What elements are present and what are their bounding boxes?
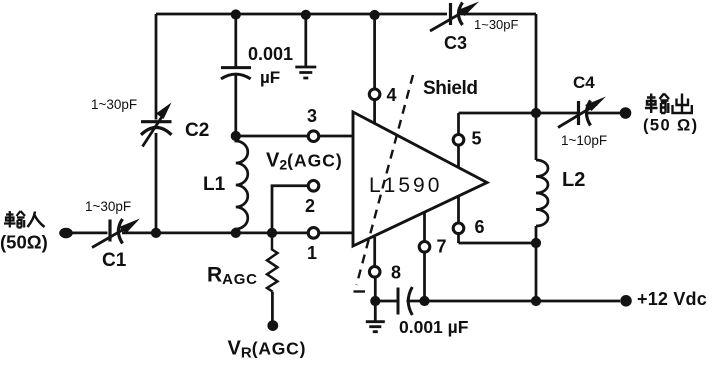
wire 0.001uF cap branch bottom [234,74,237,137]
svg-text:Shield: Shield [423,78,478,99]
inductor L2 coil [536,160,548,226]
pin 3 circle [308,131,319,142]
capacitor C0.001 bottom plates [397,288,400,315]
svg-text:4: 4 [387,85,397,105]
wire pin5 stub up [457,113,460,134]
shield dashed corner [354,290,366,292]
resistor RAGC zigzag [267,233,278,292]
svg-text:0.001 µF: 0.001 µF [399,317,469,337]
wire pin6 stub up [457,195,460,223]
pin 2 circle [308,181,319,192]
svg-text:3: 3 [307,106,317,126]
svg-text:V2(AGC): V2(AGC) [266,150,343,173]
junction dot top bus / ground [301,10,311,20]
svg-text:1: 1 [307,243,317,263]
wire pin6 stub down [457,234,460,243]
svg-text:L1590: L1590 [369,174,442,197]
wire pin4 stub to triangle [373,100,376,123]
trimmer capacitor C4 plates [577,101,580,125]
svg-text:(50 Ω): (50 Ω) [643,117,699,135]
capacitor C0.001 top plates [221,66,251,69]
trimmer C3 arrowhead [458,2,479,17]
svg-text:1~10pF: 1~10pF [561,133,607,148]
wire top bus left segment [156,13,447,16]
junction dot L2 bottom / pin6 wire [531,238,541,248]
CJK glyph shu (input) [4,211,25,228]
trimmer capacitor C1 arrow [92,225,131,248]
VR(AGC) terminal dot [267,320,278,331]
wire top bus right segment [461,13,536,16]
pin 1 circle [308,228,319,239]
output terminal dot [620,107,632,119]
trimmer capacitor C2 arrow [143,112,166,147]
ground top symbol [295,67,316,78]
wire top ground stem [304,14,307,66]
CJK glyph shu (output) [645,94,669,114]
wire pin7 stub up [423,212,426,241]
junction dot input rail / RAGC [267,228,277,238]
trimmer capacitor C1 plates [108,220,111,242]
svg-text:0.001: 0.001 [248,44,293,64]
op-amp U1 L1590 triangle [353,112,487,246]
wire pin8 down lead [374,278,377,301]
svg-text:C4: C4 [573,73,595,92]
trimmer capacitor C3 plates [449,3,452,25]
pin 5 circle [453,135,464,146]
pin 6 circle [453,223,464,234]
svg-text:2: 2 [305,196,315,216]
wire main input rail [66,232,353,235]
junction dot input rail / C2 [151,228,161,238]
svg-text:L1: L1 [203,174,226,195]
wire L2 bottom lead to +12V rail [535,226,538,301]
svg-text:+12 Vdc: +12 Vdc [637,289,707,309]
svg-text:7: 7 [437,237,447,257]
svg-text:6: 6 [475,217,485,237]
svg-text:VR(AGC): VR(AGC) [228,338,307,362]
trimmer C2 arrowhead [156,103,172,120]
shield dashed line [357,75,414,285]
wire output rail [459,112,621,115]
ground bottom symbol [366,301,385,332]
wire pin3 rail [236,135,353,138]
inductor L1 coil [236,136,248,233]
wire pin6 horizontal to L2 [459,242,537,245]
trimmer capacitor C3 arrow [430,8,470,31]
wire pin7 down lead [423,253,426,302]
svg-text:µF: µF [260,68,280,87]
input terminal dot [59,228,73,239]
wire pin4 riser [373,14,376,89]
wire right vertical from top bus to output node [535,14,538,113]
trimmer C4 arrowhead [585,97,606,112]
junction dot L2 / bottom rail [531,296,541,306]
svg-text:(50Ω): (50Ω) [0,232,48,253]
svg-text:1~30pF: 1~30pF [85,199,131,214]
junction dot top bus / pin4 [370,10,380,20]
wire left vertical (C2 branch) [155,14,158,233]
wire L2 top lead [535,113,538,160]
junction dot top bus / 0.001uF [231,9,241,19]
svg-text:5: 5 [472,129,482,149]
junction dot output node [531,108,541,118]
svg-text:L2: L2 [562,169,585,191]
wire RAGC bottom lead [271,292,274,322]
svg-text:1~30pF: 1~30pF [474,17,519,32]
wire pin2 branch [272,186,308,233]
junction dot pin8 / bottom rail [370,296,380,306]
svg-text:RAGC: RAGC [207,264,258,289]
wire 0.001uF cap branch top [234,14,237,67]
trimmer C1 arrowhead [119,219,140,234]
pin 4 circle [369,89,380,100]
pin 7 circle [419,242,430,253]
wire bottom +12V rail [375,300,620,303]
wire pin5 stub down [457,146,460,168]
svg-text:C3: C3 [444,33,467,53]
trimmer capacitor C2 plates [141,120,172,123]
junction dot input rail / L1 [231,228,241,238]
CJK glyph chu (output) [673,94,692,114]
svg-text:C2: C2 [185,120,209,141]
svg-text:C1: C1 [102,250,127,271]
junction dot pin3 rail / L1 top [231,131,241,141]
junction dot pin7 / bottom rail [419,296,429,306]
wire pin8 stub up [373,237,376,266]
pin 8 circle [369,267,380,278]
CJK glyph ru (input) [28,212,45,228]
trimmer capacitor C4 arrow [558,104,597,128]
svg-text:1~30pF: 1~30pF [91,97,137,112]
+12Vdc terminal dot [620,295,632,307]
svg-text:8: 8 [391,263,401,283]
